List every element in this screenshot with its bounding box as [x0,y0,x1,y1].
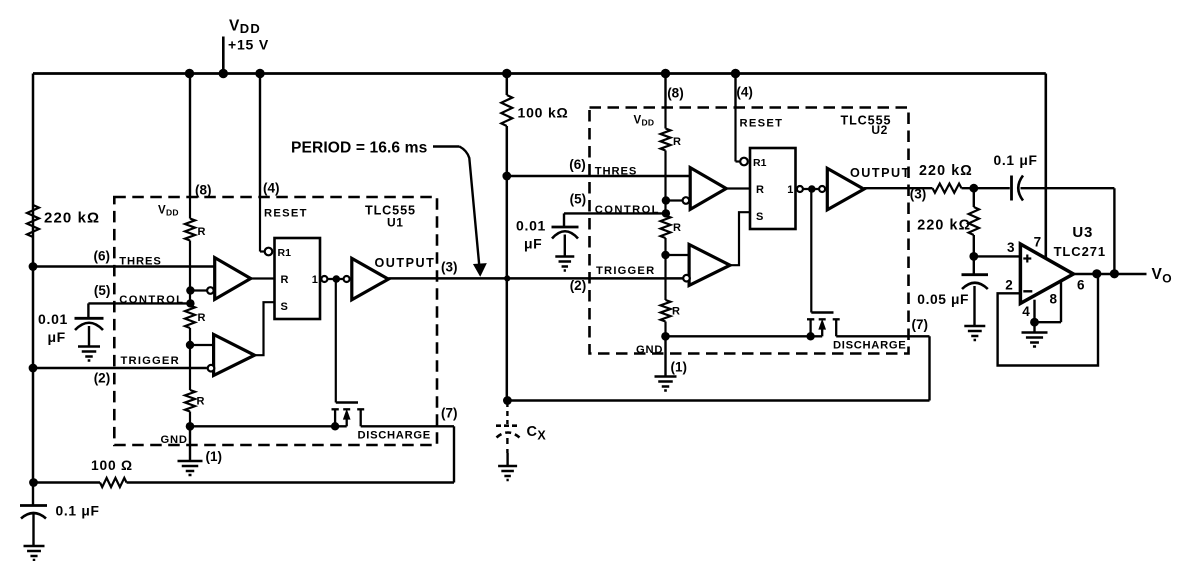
capacitor CX dashed curved plate [497,433,520,438]
svg-text:TRIGGER: TRIGGER [121,355,180,367]
junction dot trigger left rail [29,364,38,373]
svg-text:(4): (4) [736,84,753,99]
svg-text:DISCHARGE: DISCHARGE [833,340,906,352]
wire 0.01uF U1 lower stem [88,326,90,347]
svg-text:μF: μF [524,235,542,251]
svg-text:8: 8 [1050,292,1058,307]
U1 comparator1 output wire to latch R [251,277,275,279]
U1 junction dot divider to comp1 [186,286,194,294]
U1 junction dot gnd pin [186,422,195,431]
wire U1 output (3) to U2 trigger (2) [388,277,684,280]
U1 SR latch box [275,238,321,319]
svg-text:TLC271: TLC271 [1054,244,1106,259]
svg-text:DISCHARGE: DISCHARGE [358,430,431,442]
U1 discharge transistor drain bar and lead [357,408,364,410]
svg-text:U3: U3 [1072,224,1093,241]
svg-text:(7): (7) [912,317,929,332]
U2 comparator2 output wire to latch S [730,212,750,265]
capacitor 0.1uF left plate [20,504,47,507]
capacitor 0.01uF U2 stem and plate [563,213,565,227]
junction dot output feedback [1092,269,1101,278]
wire op-amp output [1073,273,1146,275]
svg-text:(5): (5) [570,192,587,207]
capacitor 0.01uF U2 curved plate [552,231,578,238]
wire op-amp pin2 feedback loop [998,274,1098,366]
svg-text:+15 V: +15 V [228,37,269,53]
junction dot U1 pin8 on rail [185,69,194,78]
svg-text:(8): (8) [667,85,684,100]
svg-text:0.1 μF: 0.1 μF [56,504,100,519]
ground 0.05uF [964,325,985,328]
U1 trigger comparator noninverting stub [190,344,214,346]
svg-text:0.01: 0.01 [38,311,68,327]
U2 internal ground wire [666,335,823,337]
svg-text:6: 6 [1077,277,1085,292]
svg-text:100 kΩ: 100 kΩ [518,105,569,121]
U2 discharge transistor gate bar [811,311,833,313]
svg-text:U1: U1 [387,215,404,229]
capacitor 0.1uF feedback curved plate [1018,176,1023,201]
wire CX stem to ground [506,453,508,466]
ground left 0.1uF [24,545,45,548]
junction dot U2 thres node [502,172,511,181]
U1 junction dot transistor source on gnd wire [331,422,339,430]
ground U1 pin1 [178,460,203,463]
svg-text:(3): (3) [441,260,458,275]
svg-text:(2): (2) [570,278,587,293]
U2 junction dot divider to comp1 [662,196,670,204]
wire U2 discharge out [836,335,929,337]
U2 internal VDD divider with resistors [664,107,666,129]
svg-text:3: 3 [1007,240,1015,255]
U2 junction dot divider to comp2 [661,251,669,259]
svg-text:R: R [672,306,680,318]
svg-text:220 kΩ: 220 kΩ [44,210,100,227]
U2 junction dot control node [662,209,670,217]
svg-text:S: S [281,301,288,313]
junction dot VDD stem on rail [219,69,228,78]
wire U1 gnd pin stem [189,426,191,461]
U2 discharge transistor gate wire [810,189,812,313]
U1 discharge transistor gate wire [335,279,337,403]
svg-text:1: 1 [787,184,793,196]
wire left node to 100 Ohm [33,481,100,484]
U1 discharge transistor body bar with arrow [343,408,350,410]
wire U1 trigger input [33,367,207,369]
U1 reset wire to latch R1 bubble [259,197,261,252]
capacitor 0.01uF U1 curved plate [75,323,103,330]
resistor 100 Ohm body [100,478,127,487]
U2 trigger comparator [689,245,730,286]
svg-text:R: R [756,184,764,196]
U1 discharge transistor source bar and lead [332,408,339,410]
U1 pin 4 RESET wire from rail [259,74,261,198]
U2 discharge transistor source bar and lead [807,318,814,320]
wire period annotation arrow shaft [460,147,480,265]
wire 0.05uF stem [973,286,975,326]
svg-text:(1): (1) [206,449,223,464]
resistor 220k left body [27,205,39,237]
U2 output buffer [827,168,864,209]
svg-text:(6): (6) [94,248,111,263]
U1 comparator2 output wire to latch S [255,302,275,355]
wire left rail vertical [32,74,35,483]
U1 internal ground wire [190,425,347,427]
U2 discharge transistor body bar with arrow [819,318,826,320]
svg-text:RESET: RESET [740,117,784,129]
U1 output buffer input bubble [344,276,350,282]
wire 100 Ohm to discharge return [127,481,455,484]
ground 0.01uF U1 [78,345,100,348]
junction dot output cap [1110,269,1119,278]
svg-text:220 kΩ: 220 kΩ [919,163,973,179]
op-amp minus sign [1023,290,1032,292]
wire U1 threshold input [33,265,215,267]
wire op-amp pin4 stem [1033,300,1035,323]
wire U2 gnd pin stem [664,336,666,376]
U2 comparator1 output wire to latch R [726,187,750,189]
svg-text:R: R [673,136,681,148]
svg-text:PERIOD = 16.6 ms: PERIOD = 16.6 ms [291,140,428,157]
junction dot op-amp + input node [969,252,978,261]
capacitor 0.05uF curved plate [962,283,988,289]
wire cap 0.1uF to output node [1021,187,1115,189]
svg-text:R: R [673,222,681,234]
svg-text:220 kΩ: 220 kΩ [917,218,971,234]
svg-text:(7): (7) [441,406,458,421]
svg-text:OUTPUT: OUTPUT [850,166,911,180]
U1 threshold comparator inverting bubble [207,287,214,294]
ground CX [498,465,517,468]
U2 threshold comparator [690,168,726,210]
svg-text:(2): (2) [94,370,111,385]
op-amp plus sign [1023,257,1031,259]
svg-text:R1: R1 [753,157,767,169]
U1 threshold comparator inverting stub [190,289,207,291]
ground 0.01uF U2 [555,255,574,258]
U2 pin 8 VDD wire from rail [664,74,666,108]
wire pin4 ground stem [1033,322,1035,332]
wire 0.01uF U2 lower stem [564,235,566,257]
svg-text:100 Ω: 100 Ω [91,458,133,473]
U1 trigger comparator [214,335,255,376]
svg-text:VDD: VDD [229,18,261,37]
svg-text:0.05 μF: 0.05 μF [917,292,969,307]
U2 latch output bubble [797,186,803,192]
U2 trigger comparator inverting bubble [683,275,690,282]
junction dot U1 pin4 on rail [255,69,264,78]
svg-text:(8): (8) [195,182,212,197]
resistor 100k body [501,95,512,126]
IC U1 dashed boundary box [114,197,437,445]
U1 discharge transistor gate bar [336,401,358,403]
junction dot U2 pin4 on rail [731,69,740,78]
U2 threshold comparator inverting bubble [683,197,690,204]
wire op-amp pin8 to gnd [1060,282,1062,323]
U2 junction dot latch output [808,185,816,193]
U1 latch output bubble [321,276,327,282]
ground op-amp pin4 [1022,331,1048,334]
U1 trigger comparator inverting bubble [208,365,215,372]
capacitor CX dashed stem top [506,402,508,424]
resistor 220k series body [933,184,962,193]
IC U2 dashed boundary box [590,108,909,354]
svg-text:(1): (1) [671,360,688,375]
wire cap 0.1uF stems [32,483,34,506]
U2 output buffer input bubble [819,186,825,192]
svg-text:R: R [197,396,205,408]
junction dot trigger wire crossing [504,275,510,281]
junction dot feedback node [969,184,978,193]
wire VDD top supply rail [33,72,1046,75]
node VDD +15V stem [222,37,225,74]
svg-text:4: 4 [1022,304,1030,319]
capacitor 0.05uF plate [973,256,975,274]
svg-text:(4): (4) [263,180,280,195]
svg-text:R: R [198,226,206,238]
svg-text:TRIGGER: TRIGGER [596,265,655,277]
U2 pin 4 RESET wire from rail [734,74,736,108]
op-amp U3 triangle [1020,244,1073,303]
junction dot U2 pin8 on rail [661,69,670,78]
wire VDD rail corner down to U3 pin 7 [1045,74,1048,258]
capacitor 0.01uF U1 stem and plate [87,303,89,318]
wire U2 control to divider [564,212,666,214]
svg-text:(5): (5) [94,283,111,298]
wire CX dashed stem bottom [506,438,508,453]
capacitor 0.1uF left curved plate [21,513,46,519]
wire U1 discharge out [361,425,454,427]
capacitor 0.1uF feedback flat plate [1010,176,1013,201]
U1 threshold comparator [215,258,251,300]
svg-text:R: R [281,274,289,286]
U2 latch output wire [796,188,828,190]
U1 latch R1 input bubble [265,248,273,256]
junction dot 100k branch on rail [502,69,511,78]
U2 junction dot transistor source on gnd wire [806,332,814,340]
svg-text:μF: μF [48,329,66,345]
resistor 220k shunt body [973,188,975,207]
svg-text:S: S [756,211,763,223]
svg-text:(6): (6) [569,157,586,172]
wire period annotation leader dash [433,145,460,147]
junction dot pin4 gnd [1030,318,1039,327]
svg-text:2: 2 [1005,278,1013,293]
wire 220k to cap 0.1uF [962,187,1010,189]
U2 latch R1 input bubble [740,158,748,166]
U1 internal VDD divider with resistors [189,197,191,219]
U1 output buffer [352,258,389,299]
svg-text:R: R [198,312,206,324]
wire U2 output to 220k [864,187,933,189]
ground U2 pin1 [655,375,677,378]
U1 junction dot latch output [333,275,341,283]
U2 trigger comparator noninverting stub [666,254,690,256]
svg-text:0.01: 0.01 [516,217,546,233]
wire U2 threshold input [507,175,690,177]
wire timing node vertical [506,126,509,401]
wire U2 discharge return to Cx node [507,399,929,402]
U2 junction dot gnd pin [661,332,670,341]
arrowhead period annotation [474,264,485,275]
svg-text:R1: R1 [278,247,292,259]
junction dot thres left rail [29,262,38,271]
svg-text:OUTPUT: OUTPUT [375,256,436,270]
U1 junction dot control node [186,299,194,307]
U2 reset wire to latch R1 bubble [734,107,736,162]
U2 SR latch box [750,148,796,229]
capacitor CX dashed plate [496,424,520,427]
svg-text:1: 1 [312,274,318,286]
U1 pin 8 VDD wire from rail [189,74,191,198]
junction dot Cx node [503,396,512,405]
junction dot bottom left node [29,478,38,487]
wire 100k branch upper [506,74,509,96]
U2 discharge transistor drain bar and lead [833,318,840,320]
svg-text:U2: U2 [871,123,888,137]
U1 junction dot divider to comp2 [186,341,194,349]
svg-text:7: 7 [1034,235,1042,250]
U1 latch output wire [320,278,352,280]
wire op-amp pin3 input [974,255,1021,257]
U2 threshold comparator inverting stub [666,199,683,201]
svg-text:RESET: RESET [264,207,308,219]
svg-text:0.1 μF: 0.1 μF [994,153,1038,168]
wire U1 control to divider [88,302,190,304]
